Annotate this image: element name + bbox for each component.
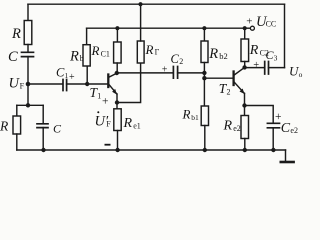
svg-text:1: 1 (65, 71, 69, 80)
capacitor C2 (173, 67, 177, 79)
resistor Re2 (241, 116, 249, 139)
resistor Rb2 (201, 41, 208, 63)
wire rail to RC1 (116, 28, 118, 42)
svg-text:1: 1 (97, 92, 101, 101)
capacitor C1 (63, 80, 67, 91)
node T2 emitter (242, 103, 246, 107)
wire T2 emitter down (244, 93, 246, 105)
wire RF top to output rail (140, 4, 142, 41)
svg-text:R: R (249, 43, 259, 58)
wire T2 base (204, 77, 233, 79)
wire top output rail (28, 3, 285, 5)
wire Ce2 to rail (272, 128, 274, 150)
wire T1 collector to C2 (117, 72, 173, 74)
svg-text:C: C (281, 121, 291, 136)
node rail RC1 (115, 26, 119, 30)
svg-text:R: R (91, 43, 100, 58)
node base T1 (85, 82, 89, 86)
svg-text:+: + (162, 64, 168, 75)
wire left leg to R (16, 105, 18, 116)
svg-text:e1: e1 (133, 122, 141, 131)
svg-text:+: + (253, 60, 259, 71)
wire collector node to C3 (245, 67, 265, 69)
wire T1 emitter down (116, 94, 118, 103)
node Rb1 bottom (203, 148, 207, 152)
svg-text:C1: C1 (101, 50, 110, 59)
node U_F input (26, 82, 31, 87)
wire C bottom to rail (42, 128, 44, 150)
transistor T1 base bar (107, 75, 109, 88)
svg-text:C: C (53, 122, 62, 136)
wire divider tee (17, 104, 43, 106)
wire RC1 to T1 collector (116, 63, 118, 73)
wire emitter to RF corner (117, 63, 141, 103)
transistor T2 collector diagonal (234, 68, 244, 75)
transistor T2 emitter with arrow (234, 82, 244, 93)
resistor Rb (83, 45, 90, 66)
svg-text:o: o (299, 70, 303, 79)
wire R to C (left chain) (27, 45, 29, 53)
node Re1 bottom (115, 148, 119, 152)
resistor RC2 (241, 39, 249, 62)
transistor T2 base bar (232, 72, 234, 86)
capacitor C (lower left) (37, 124, 48, 128)
node C bottom (41, 148, 45, 152)
svg-text:R: R (11, 26, 21, 42)
svg-text:+: + (246, 16, 252, 28)
svg-text:b2: b2 (219, 51, 228, 61)
svg-text:+: + (102, 95, 109, 107)
wire Rb1 to rail (204, 126, 206, 151)
svg-text:b1: b1 (191, 113, 199, 122)
wire C1 to T1 base (67, 83, 108, 85)
node Re2 bottom (243, 148, 247, 152)
wire right edge down to output (284, 4, 286, 67)
wire ground stub (285, 150, 287, 162)
resistor Re1 (114, 109, 121, 131)
node T2 collector (242, 65, 246, 69)
svg-text:R: R (69, 49, 79, 65)
node top-rail / RF junction (138, 2, 142, 6)
terminal Ucc circle (250, 26, 254, 30)
resistor R (lower left) (13, 116, 21, 134)
wire T1 emitter to Re1 (116, 103, 118, 109)
svg-text:CC: CC (266, 20, 277, 29)
node C2 Rb2 (202, 71, 206, 75)
wire output segment from C3 to right edge (269, 67, 285, 69)
wire R bottom to ground rail (16, 134, 18, 150)
node T2 base tee (202, 76, 206, 80)
svg-text:C: C (171, 52, 180, 66)
svg-text:F: F (20, 82, 25, 91)
svg-text:R: R (223, 119, 233, 134)
resistor RC1 (114, 42, 122, 63)
resistor RF (137, 41, 144, 63)
wire Rb2 to Rb1 column (203, 63, 205, 107)
transistor T1 collector diagonal (109, 73, 117, 77)
transistor T1 emitter with arrow (109, 85, 117, 94)
wire rail to RC2 (244, 28, 246, 39)
wire left vertical from top rail to R (27, 4, 29, 20)
svg-text:b: b (80, 53, 84, 63)
wire Re2 to rail (244, 139, 246, 151)
wire right leg to C (42, 105, 44, 123)
wire T2 emitter to Re2 (244, 106, 246, 116)
svg-text:R: R (208, 46, 218, 62)
svg-text:C: C (8, 49, 18, 65)
wire Rb bottom to base node (86, 66, 88, 84)
capacitor C3 (265, 62, 269, 75)
wire rail to Rb (86, 28, 88, 45)
ground (281, 161, 294, 164)
svg-text:Γ: Γ (155, 48, 160, 57)
node Ce2 bottom (271, 148, 275, 152)
wire C2 to Rb2 node (178, 72, 205, 74)
svg-text:3: 3 (274, 54, 278, 63)
svg-text:R: R (123, 116, 133, 131)
wire Re1 to rail (117, 131, 119, 151)
wire T2 emitter to Ce2 (245, 106, 274, 124)
svg-text:e2: e2 (233, 124, 241, 133)
capacitor Ce2 (267, 123, 279, 128)
node rail RC2 (243, 26, 247, 30)
capacitor C (upper left) (22, 52, 34, 56)
wire C down to U1 node (27, 57, 29, 106)
node T1 emitter (115, 100, 119, 104)
wire bottom ground rail (17, 149, 286, 151)
svg-text:+: + (69, 72, 75, 83)
resistor R (top left) (24, 21, 32, 45)
node rail Rb2 (202, 26, 206, 30)
svg-text:2: 2 (227, 88, 231, 97)
wire rail to Rb2 (203, 28, 205, 41)
wire supply rail Ucc (87, 27, 245, 29)
node lower divider (26, 103, 30, 107)
svg-text:R: R (182, 107, 191, 122)
resistor Rb1 (201, 106, 208, 126)
svg-text:R: R (0, 119, 9, 134)
label minus UF' (105, 144, 111, 146)
svg-text:e2: e2 (290, 126, 298, 135)
wire RC2 to collector node (244, 62, 246, 68)
wire Ucc terminal stub (245, 27, 251, 29)
svg-text:2: 2 (179, 57, 183, 66)
wire U node to C1 (28, 83, 63, 85)
svg-text:F: F (106, 120, 111, 129)
node T1 collector (115, 71, 119, 75)
svg-text:R: R (145, 42, 154, 57)
